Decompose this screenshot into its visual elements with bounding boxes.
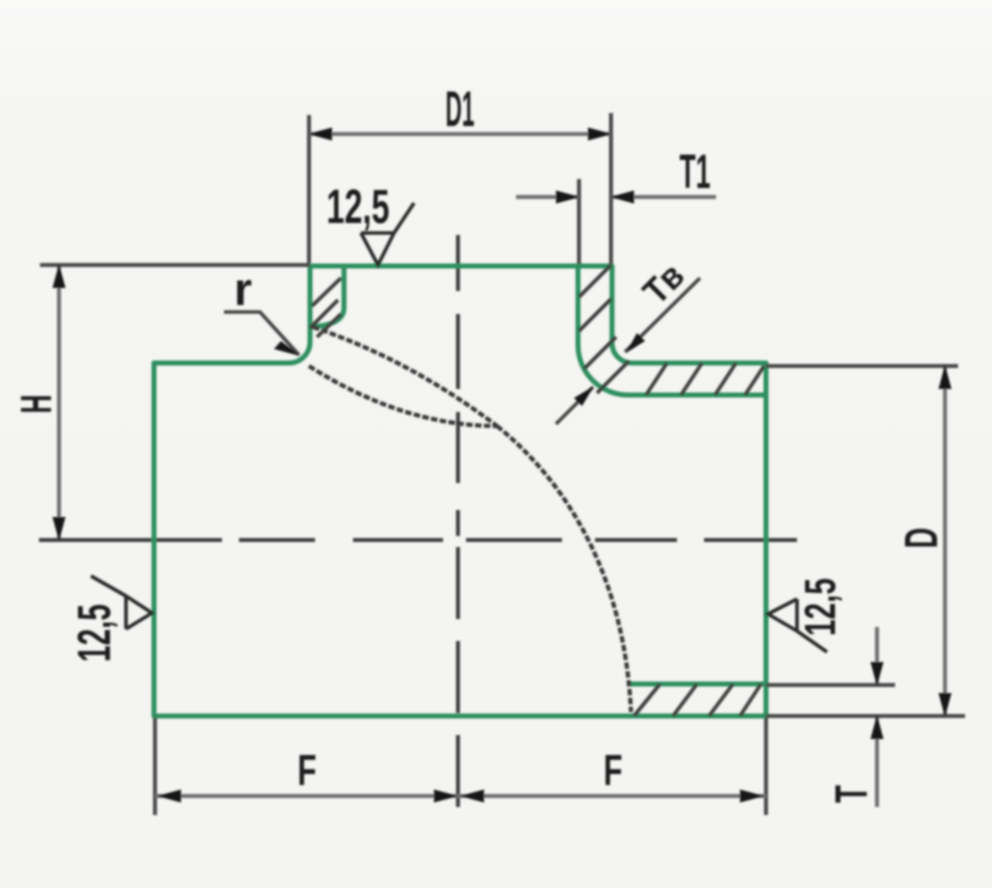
dimension D1 line [309, 132, 611, 136]
Tb upper arrowhead [626, 333, 645, 353]
svg-text:F: F [604, 746, 623, 795]
T lower shaft [875, 718, 879, 807]
roughness symbol right 12,5 [768, 599, 827, 652]
svg-text:T: T [826, 785, 877, 803]
svg-text:H: H [12, 395, 61, 414]
T1 arrow pointing left [610, 191, 634, 204]
D arrow down [939, 693, 952, 717]
T1 extension line left [577, 179, 581, 264]
Tb lower arrowhead [574, 386, 594, 406]
roughness symbol top 12,5 [361, 203, 414, 265]
T upper shaft [875, 627, 879, 683]
dimension H line [57, 267, 61, 538]
Tb leader upper segment [625, 278, 700, 352]
svg-text:T1: T1 [680, 146, 711, 199]
F extension line left [153, 718, 157, 815]
svg-text:D1: D1 [446, 81, 475, 137]
F arrow far left [157, 790, 181, 803]
branch left outer wall [308, 266, 313, 342]
bore sweep curve lower lens [309, 366, 497, 426]
top-left extension line at branch top level [40, 263, 310, 267]
branch right inner wall [576, 266, 581, 345]
branch top face [310, 264, 612, 269]
run pipe top-right inner surface [628, 393, 766, 398]
F arrow center pointing left [460, 790, 484, 803]
left outer fillet r [289, 342, 310, 363]
r arrowhead [274, 341, 300, 356]
svg-text:12,5: 12,5 [68, 604, 120, 662]
D extension bottom line [766, 714, 965, 718]
D extension top line [766, 364, 958, 368]
run pipe left end face [152, 363, 157, 716]
svg-text:r: r [234, 263, 252, 315]
run pipe bottom outer surface [154, 714, 766, 719]
svg-text:12,5: 12,5 [796, 578, 845, 636]
bore sweep curve main [497, 426, 631, 712]
svg-text:D: D [895, 528, 947, 549]
right outer fillet [612, 343, 632, 363]
F arrow center pointing right [434, 790, 458, 803]
dimension T1 right shaft [611, 195, 716, 199]
leader r underline and arrow [224, 312, 299, 355]
run pipe top-right outer surface [632, 361, 766, 366]
horizontal center line of run pipe [39, 538, 797, 542]
H arrow up [53, 264, 66, 288]
run pipe right end face [764, 363, 769, 716]
hatching branch left wall [310, 278, 341, 337]
D1 arrow left [308, 128, 332, 141]
dimension T1 left shaft [516, 195, 579, 199]
green part outline: left outer fillet and left run top surface [154, 266, 766, 716]
T arrow down to inner line [871, 662, 884, 686]
hatching run top-right wall [646, 363, 764, 395]
T extension line [766, 683, 895, 687]
dimension D line [943, 368, 947, 714]
vertical center line of branch [456, 235, 460, 807]
Tb leader lower segment [556, 387, 593, 424]
bore sweep curve upper lens [313, 327, 497, 426]
branch left inner wall with hook [310, 266, 344, 327]
D1 arrow right [588, 128, 612, 141]
run pipe top-left outer surface [154, 361, 289, 366]
D1 extension line right [609, 113, 613, 264]
T arrow up to bottom line [871, 715, 884, 739]
roughness symbol left 12,5 [91, 576, 152, 629]
T1 arrow pointing right [556, 191, 580, 204]
F arrow far right [740, 790, 764, 803]
F extension line right [764, 718, 768, 815]
svg-text:F: F [298, 746, 317, 795]
D1 extension line left [307, 115, 311, 263]
hatching run bottom-right wall [634, 684, 761, 716]
H arrow down [53, 517, 66, 541]
dimension F line [155, 794, 766, 798]
run pipe bottom-right inner surface [629, 682, 766, 687]
D arrow up [939, 365, 952, 389]
svg-text:12,5: 12,5 [327, 181, 390, 234]
right inner fillet [578, 345, 628, 395]
hatching branch right wall [579, 265, 629, 393]
branch right outer wall [610, 266, 615, 343]
